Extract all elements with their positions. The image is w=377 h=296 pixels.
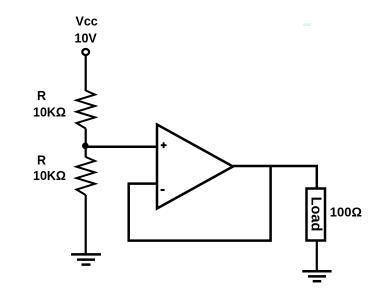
svg-text:Load: Load (308, 197, 324, 232)
op-amp U1 (157, 125, 233, 209)
wire feedback loop (output to - input) (129, 166, 271, 241)
wire R1 to node A (85, 129, 87, 158)
resistor R1 zigzag (77, 91, 96, 129)
terminal Vcc (open circle) (82, 49, 89, 55)
node A junction dot (82, 143, 89, 150)
ground (right) (302, 271, 331, 281)
wire R2 to ground (85, 195, 87, 255)
op-amp + input mark (161, 142, 167, 148)
op-amp - input mark (161, 189, 165, 191)
svg-text:100Ω: 100Ω (330, 205, 362, 220)
resistor Load (box) (307, 189, 326, 241)
svg-text:R: R (37, 153, 46, 167)
wire load to ground (316, 241, 318, 272)
svg-text:10V: 10V (75, 32, 98, 46)
stray pale-green artifact mark (303, 24, 311, 27)
svg-text:R: R (37, 89, 46, 103)
resistor R2 zigzag (77, 157, 96, 195)
ground (left) (71, 254, 101, 264)
wire Vcc to R1 (85, 55, 87, 91)
wire node A to op-amp + input (85, 145, 156, 148)
svg-text:10KΩ: 10KΩ (33, 105, 66, 119)
svg-text:Vcc: Vcc (76, 15, 98, 29)
wire op-amp output to load (233, 166, 317, 189)
svg-text:10KΩ: 10KΩ (33, 169, 66, 183)
